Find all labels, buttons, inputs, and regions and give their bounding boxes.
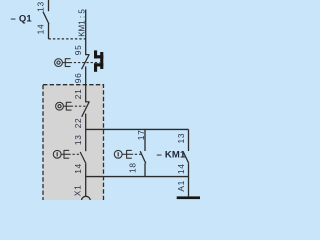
actuator E (17/18 row) <box>127 150 132 159</box>
contact S2 13-14 (NO start) <box>80 152 86 164</box>
actuator E (overload) <box>65 58 70 67</box>
wire main vertical (95/96 to 21/22) <box>85 66 87 102</box>
svg-text:22: 22 <box>73 118 83 129</box>
svg-text:13: 13 <box>176 133 186 144</box>
pushbutton head symbol (17/18 row) <box>114 150 122 158</box>
svg-text:– Q1: – Q1 <box>11 13 33 24</box>
svg-text:96: 96 <box>73 72 83 83</box>
wire bottom bus <box>86 176 189 178</box>
actuator E (S2) <box>64 150 69 159</box>
contact F1 95-96 (NC thermal overload) <box>82 55 90 70</box>
svg-text:14: 14 <box>35 24 45 35</box>
contact KM1 13-14 (NO holding) <box>183 129 189 176</box>
contact 17-18 (NO) <box>140 129 146 176</box>
wire main vertical (22 to 13) <box>85 114 87 152</box>
mech link (17/18 row) <box>122 153 133 155</box>
actuator E (S1) <box>66 102 71 111</box>
wire to coil A1 <box>188 177 190 197</box>
svg-text:13: 13 <box>73 134 83 145</box>
svg-text:21: 21 <box>73 88 83 99</box>
svg-text:A1: A1 <box>176 180 186 192</box>
svg-text:KM1 : 5: KM1 : 5 <box>77 9 86 37</box>
pushbutton head symbol S1 (stop) <box>56 102 64 110</box>
wire main vertical (top) <box>85 10 87 56</box>
pushbutton head symbol (overload reset) <box>55 59 63 67</box>
svg-text:– KM1: – KM1 <box>157 150 186 161</box>
svg-text:X1: X1 <box>73 185 83 197</box>
wire branch bus <box>86 128 189 130</box>
contact Q1 13-14 (NO) <box>43 0 49 39</box>
pushbutton head symbol S2 (start) <box>53 150 61 158</box>
mech link (S1 row) <box>63 105 73 107</box>
terminal circle X1 <box>82 196 91 205</box>
wire main vertical (14 to bus) <box>85 164 87 196</box>
coil KM1 (top edge) <box>177 196 200 199</box>
contact S1 21-22 (NC stop) <box>82 102 90 117</box>
svg-text:14: 14 <box>176 163 186 174</box>
svg-text:13: 13 <box>35 1 45 12</box>
mech link (S2 row) <box>61 153 71 155</box>
svg-text:95: 95 <box>73 44 83 55</box>
mech link (overload row) <box>62 62 72 64</box>
wire dashed link Q1 to line <box>49 38 86 40</box>
svg-text:18: 18 <box>127 162 137 173</box>
thermal release symbol (bold) <box>94 50 103 71</box>
enclosure box (push-button station) <box>43 85 104 205</box>
svg-text:14: 14 <box>73 163 83 174</box>
